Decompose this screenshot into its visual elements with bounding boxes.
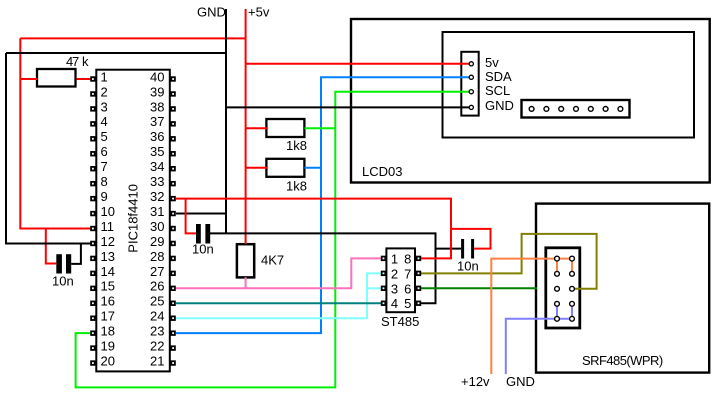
wire red 47k right to PIC pin 1	[77, 78, 91, 80]
LCD03 header hole SCL	[469, 90, 473, 94]
PIC pin 34 pad	[170, 166, 175, 171]
SRF485 connector hole r3c1	[555, 286, 560, 291]
PIC pin 4 pad	[90, 121, 95, 126]
svg-text:1k8: 1k8	[286, 138, 307, 153]
svg-text:24: 24	[150, 309, 164, 324]
PIC pin 36 pad	[170, 136, 175, 141]
PIC pin 9 pad	[90, 196, 95, 201]
svg-text:22: 22	[150, 339, 164, 354]
svg-text:40: 40	[150, 69, 164, 84]
wire pink: PIC pin 26 to ST485 pin 1	[176, 258, 381, 288]
PIC pin 15 pad	[90, 286, 95, 291]
svg-text:LCD03: LCD03	[362, 164, 402, 179]
LCD03 connector hole 4	[574, 107, 579, 112]
wire orange link row1-row2 col1	[556, 259, 558, 274]
wire orange +12v: label up to SRF485 connector row1	[491, 259, 572, 374]
wire black branch pin12 line to cap C1 right plate	[71, 243, 81, 263]
LCD03 4-pin header outline	[461, 52, 478, 116]
svg-text:21: 21	[150, 353, 164, 368]
svg-text:3: 3	[391, 281, 398, 296]
ST485 pin 7 pad	[416, 271, 421, 276]
wire purple link row4-row5 col1	[556, 304, 558, 319]
PIC pin 13 pad	[90, 256, 95, 261]
SRF485 connector hole r2c1	[555, 271, 560, 276]
svg-text:7: 7	[404, 266, 411, 281]
wire black GND to LCD03 GND pin	[226, 106, 470, 108]
wire GND top rail vertical	[225, 9, 227, 233]
svg-text:10n: 10n	[457, 259, 479, 274]
wire red stub +5v rail to 1k8 SDA pullup	[246, 167, 267, 169]
svg-text:SRF485(WPR): SRF485(WPR)	[582, 353, 663, 368]
wire black GND run: cap C2 right plate to ST485 pin 5	[210, 233, 436, 303]
svg-text:8: 8	[404, 251, 411, 266]
LCD03 connector hole 6	[603, 107, 608, 112]
wire blue stub: 1k8 SDA pullup to blue rail	[305, 167, 322, 169]
PIC pin 23 pad	[170, 330, 175, 335]
PIC pin 26 pad	[170, 286, 175, 291]
capacitor C2 10n right plate	[205, 224, 210, 244]
svg-text:PIC18f4410: PIC18f4410	[126, 184, 141, 253]
svg-text:3: 3	[101, 99, 108, 114]
LCD03 inner board box	[443, 32, 695, 138]
svg-text:28: 28	[150, 249, 164, 264]
svg-text:35: 35	[150, 144, 164, 159]
svg-text:5: 5	[101, 129, 108, 144]
svg-text:GND: GND	[506, 374, 535, 389]
svg-text:1: 1	[101, 69, 108, 84]
SRF485 connector hole r5c2	[570, 316, 575, 321]
svg-text:13: 13	[101, 249, 115, 264]
wire red PIC pin 32 run to ST485 pin 8	[176, 199, 451, 259]
resistor 1k8 (SDA pullup) body	[266, 159, 304, 177]
SRF485 connector hole r1c2	[570, 256, 575, 261]
wire red +5v to LCD03 5v pin	[246, 63, 470, 65]
PIC pin 25 pad	[170, 301, 175, 306]
svg-text:15: 15	[101, 279, 115, 294]
capacitor C1 10n right plate	[66, 254, 71, 273]
svg-text:6: 6	[101, 144, 108, 159]
svg-text:39: 39	[150, 84, 164, 99]
resistor 47k body	[37, 69, 76, 87]
LCD03 header hole SDA	[469, 75, 473, 79]
wire pink stub: 4K7 bottom to pink wire	[245, 277, 247, 288]
wire SCL green: LCD SCL pin down rail to bottom run to PIC pin 18	[76, 92, 470, 388]
wire red branch pin11 line to cap C1 left plate	[46, 229, 57, 264]
svg-text:+12v: +12v	[461, 374, 490, 389]
PIC pin 11 pad	[90, 226, 95, 231]
PIC pin 22 pad	[170, 345, 175, 350]
svg-text:6: 6	[404, 281, 411, 296]
PIC pin 8 pad	[90, 181, 95, 186]
capacitor C1 10n left plate	[56, 254, 62, 273]
svg-text:4: 4	[101, 114, 108, 129]
svg-text:16: 16	[101, 294, 115, 309]
svg-text:14: 14	[101, 264, 115, 279]
transceiver ST485 U2 body	[386, 248, 415, 312]
SRF485 connector hole r5c1	[555, 316, 560, 321]
wire teal: PIC pin 25 to ST485 pin 4	[176, 302, 381, 304]
op IC PIC18f4410 U1 body	[96, 70, 170, 372]
PIC pin 39 pad	[170, 91, 175, 96]
PIC pin 35 pad	[170, 151, 175, 156]
PIC pin 37 pad	[170, 121, 175, 126]
LCD03 connector hole 1	[529, 107, 534, 112]
svg-text:47k: 47k	[66, 54, 89, 69]
svg-text:36: 36	[150, 129, 164, 144]
wire red branch pin32 line down to cap C2 left plate	[186, 199, 196, 234]
svg-text:10n: 10n	[52, 274, 74, 289]
svg-text:8: 8	[101, 174, 108, 189]
PIC pin 19 pad	[90, 345, 95, 350]
SRF485 connector hole r2c2	[570, 271, 575, 276]
PIC pin 29 pad	[170, 241, 175, 246]
resistor 4K7 body	[237, 244, 254, 277]
PIC pin 3 pad	[90, 106, 95, 111]
svg-text:18: 18	[101, 324, 115, 339]
ST485 pin 1 pad	[381, 256, 386, 261]
ST485 pin 6 pad	[416, 286, 421, 291]
PIC pin 2 pad	[90, 91, 95, 96]
PIC pin 7 pad	[90, 166, 95, 171]
svg-text:5: 5	[404, 296, 411, 311]
wire red branch to cap C3 right plate	[451, 229, 491, 249]
capacitor C2 10n left plate	[196, 224, 201, 244]
SRF485 connector hole r4c1	[555, 301, 560, 306]
svg-text:+5v: +5v	[248, 5, 270, 20]
SRF485 module box	[536, 204, 709, 373]
ST485 pin 2 pad	[381, 271, 386, 276]
svg-text:9: 9	[101, 189, 108, 204]
svg-text:34: 34	[150, 159, 164, 174]
wire red stub +5v rail to 1k8 SCL pullup	[246, 127, 267, 129]
svg-text:23: 23	[150, 324, 164, 339]
svg-text:11: 11	[101, 219, 115, 234]
svg-text:SCL: SCL	[485, 83, 510, 98]
svg-text:4K7: 4K7	[261, 253, 284, 268]
svg-text:GND: GND	[197, 5, 226, 20]
wire orange link row1-row2 col2	[571, 259, 573, 274]
wire SDA blue: LCD SDA pin to pullup rail down to PIC pin 23	[176, 77, 470, 333]
SRF485 connector hole r1c1	[555, 256, 560, 261]
svg-text:GND: GND	[485, 98, 514, 113]
svg-text:10n: 10n	[192, 242, 214, 257]
capacitor C3 10n left plate	[461, 239, 464, 259]
wire olive: ST485 pin 7 to SRF485 connector row3 right	[421, 234, 597, 289]
svg-text:20: 20	[101, 353, 115, 368]
wire black branch to cap C3 left plate	[436, 248, 462, 250]
svg-text:2: 2	[391, 266, 398, 281]
ST485 pin 3 pad	[381, 286, 386, 291]
wire red stub rail to 47k left	[20, 78, 37, 80]
PIC pin 30 pad	[170, 226, 175, 231]
PIC pin 40 pad	[170, 76, 175, 81]
svg-text:29: 29	[150, 234, 164, 249]
PIC pin 12 pad	[90, 241, 95, 246]
svg-text:31: 31	[150, 204, 164, 219]
PIC pin 28 pad	[170, 256, 175, 261]
PIC pin 20 pad	[90, 360, 95, 365]
LCD03 connector hole 2	[544, 107, 549, 112]
LCD03 header hole GND	[469, 105, 473, 109]
ST485 pin 8 pad	[416, 256, 421, 261]
PIC pin 10 pad	[90, 211, 95, 216]
wire dark green: ST485 pin 6 to SRF485 box edge	[421, 287, 537, 289]
svg-text:4: 4	[391, 296, 398, 311]
wire red left rail down to PIC pin 11	[20, 38, 90, 228]
LCD03 header hole 5v	[469, 62, 473, 66]
svg-text:30: 30	[150, 219, 164, 234]
wire GND left rail down to PIC pin 12	[6, 53, 91, 243]
svg-text:1: 1	[391, 251, 398, 266]
svg-text:ST485: ST485	[381, 314, 419, 329]
LCD03 connector hole 7	[618, 107, 623, 112]
svg-text:27: 27	[150, 264, 164, 279]
svg-text:38: 38	[150, 99, 164, 114]
PIC pin 21 pad	[170, 360, 175, 365]
svg-text:33: 33	[150, 174, 164, 189]
svg-text:SDA: SDA	[485, 69, 512, 84]
SRF485 connector hole r4c2	[570, 301, 575, 306]
ST485 pin 4 pad	[381, 301, 386, 306]
svg-text:17: 17	[101, 309, 115, 324]
wire red top horizontal +5v to left red rail	[20, 37, 245, 39]
svg-text:7: 7	[101, 159, 108, 174]
SRF485 header connector outline	[546, 248, 580, 328]
LCD03 module outer box	[351, 19, 710, 183]
wire green stub: 1k8 SCL pullup to green rail	[305, 127, 336, 129]
svg-text:10: 10	[101, 204, 115, 219]
wire +5v rail vertical down to 4K7 top	[245, 9, 247, 244]
wire black PIC pin 31 to GND rail	[176, 213, 226, 215]
SRF485 connector hole r3c2	[570, 286, 575, 291]
svg-text:25: 25	[150, 294, 164, 309]
PIC pin 33 pad	[170, 181, 175, 186]
svg-text:37: 37	[150, 114, 164, 129]
svg-text:1k8: 1k8	[286, 179, 307, 194]
resistor 1k8 (SCL pullup) body	[266, 119, 304, 137]
svg-text:2: 2	[101, 84, 108, 99]
PIC pin 16 pad	[90, 301, 95, 306]
svg-text:5v: 5v	[485, 55, 499, 70]
ST485 pin 5 pad	[416, 301, 421, 306]
svg-text:26: 26	[150, 279, 164, 294]
capacitor C3 10n right plate	[471, 239, 474, 259]
PIC pin 5 pad	[90, 136, 95, 141]
svg-text:19: 19	[101, 339, 115, 354]
PIC pin 38 pad	[170, 106, 175, 111]
LCD03 connector hole 3	[559, 107, 564, 112]
wire GND top horizontal to left rail	[6, 52, 226, 54]
PIC pin 6 pad	[90, 151, 95, 156]
PIC pin 31 pad	[170, 211, 175, 216]
svg-text:32: 32	[150, 189, 164, 204]
wire purple GND: label up to SRF485 connector row5	[506, 319, 572, 374]
PIC pin 18 pad	[90, 330, 95, 335]
wire cyan: PIC pin 24 to ST485 pins 2 and 3	[176, 273, 381, 318]
LCD03 connector hole 5	[588, 107, 593, 112]
LCD03 7-hole connector outline	[522, 100, 630, 118]
PIC pin 27 pad	[170, 271, 175, 276]
PIC pin 32 pad	[170, 196, 175, 201]
wire purple link row4-row5 col2	[571, 304, 573, 319]
PIC pin 14 pad	[90, 271, 95, 276]
PIC pin 1 pad	[90, 76, 95, 81]
PIC pin 17 pad	[90, 316, 95, 321]
svg-text:12: 12	[101, 234, 115, 249]
wire cyan branch to ST485 pin 3	[367, 287, 381, 289]
PIC pin 24 pad	[170, 316, 175, 321]
